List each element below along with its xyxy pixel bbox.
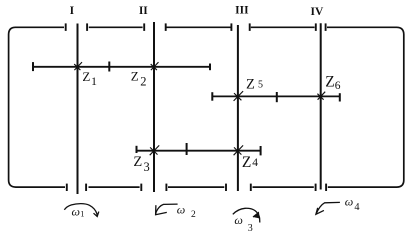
label omega2 <box>177 203 196 221</box>
junction gear Z5 on shaft III <box>234 91 244 101</box>
label Z5 <box>246 76 263 92</box>
svg-text:Z: Z <box>133 154 142 170</box>
svg-text:4: 4 <box>252 157 258 169</box>
svg-text:1: 1 <box>80 209 84 219</box>
svg-text:1: 1 <box>91 74 97 88</box>
junction gear Z4 on shaft III <box>234 145 244 155</box>
label omega3 <box>234 213 252 234</box>
housing frame <box>9 27 404 187</box>
svg-text:3: 3 <box>248 223 253 233</box>
svg-text:ω: ω <box>72 204 80 218</box>
junction gear Z6 on shaft IV <box>317 92 325 100</box>
svg-text:IV: IV <box>311 6 324 18</box>
shaft III <box>237 25 239 191</box>
junction gear Z1 on shaft I <box>74 62 82 70</box>
gear line Z5-Z6 <box>212 92 341 102</box>
bearing shaft III bottom <box>226 184 251 191</box>
junction gear Z2 on shaft II <box>151 62 159 70</box>
svg-text:2: 2 <box>191 210 196 220</box>
svg-text:Z: Z <box>246 76 255 92</box>
label Z1 <box>82 69 97 88</box>
svg-text:ω: ω <box>345 195 353 209</box>
label Z6 <box>325 73 341 92</box>
svg-text:3: 3 <box>144 160 150 174</box>
label omega1 <box>72 204 85 218</box>
bearing shaft I bottom <box>67 184 86 191</box>
svg-text:Z: Z <box>325 73 334 90</box>
bearing shaft I top <box>66 23 87 31</box>
svg-text:5: 5 <box>258 80 263 91</box>
label Z4 <box>242 154 258 171</box>
bearing shaft III top <box>231 23 249 31</box>
label Z3 <box>133 154 149 174</box>
svg-text:Z: Z <box>242 154 251 171</box>
svg-text:6: 6 <box>335 80 341 92</box>
gear line Z1-Z2 <box>32 62 211 72</box>
bearing shaft II top <box>144 23 166 31</box>
svg-text:Z: Z <box>131 68 139 83</box>
svg-text:4: 4 <box>354 202 359 213</box>
omega3 rotation arrow <box>233 208 260 222</box>
label omega4 <box>345 195 360 214</box>
shaft IV <box>320 23 322 189</box>
shaft II <box>153 22 155 192</box>
svg-text:ω: ω <box>234 213 242 227</box>
bearing shaft IV bottom <box>316 184 327 191</box>
gear line Z3-Z4 <box>136 143 262 155</box>
omega1 rotation arrow <box>64 204 99 217</box>
svg-text:II: II <box>139 5 148 17</box>
svg-text:ω: ω <box>177 203 185 217</box>
omega4 rotation arrow <box>316 202 340 214</box>
svg-text:Z: Z <box>82 69 90 84</box>
label Z2 <box>131 68 147 88</box>
shaft I <box>77 24 79 195</box>
bearing shaft II bottom <box>141 184 166 191</box>
bearing shaft IV top <box>316 23 326 31</box>
omega2 rotation arrow <box>156 204 178 215</box>
svg-text:2: 2 <box>140 75 146 89</box>
svg-text:I: I <box>70 5 75 17</box>
junction gear Z3 on shaft II <box>150 145 160 155</box>
svg-text:III: III <box>235 5 249 17</box>
